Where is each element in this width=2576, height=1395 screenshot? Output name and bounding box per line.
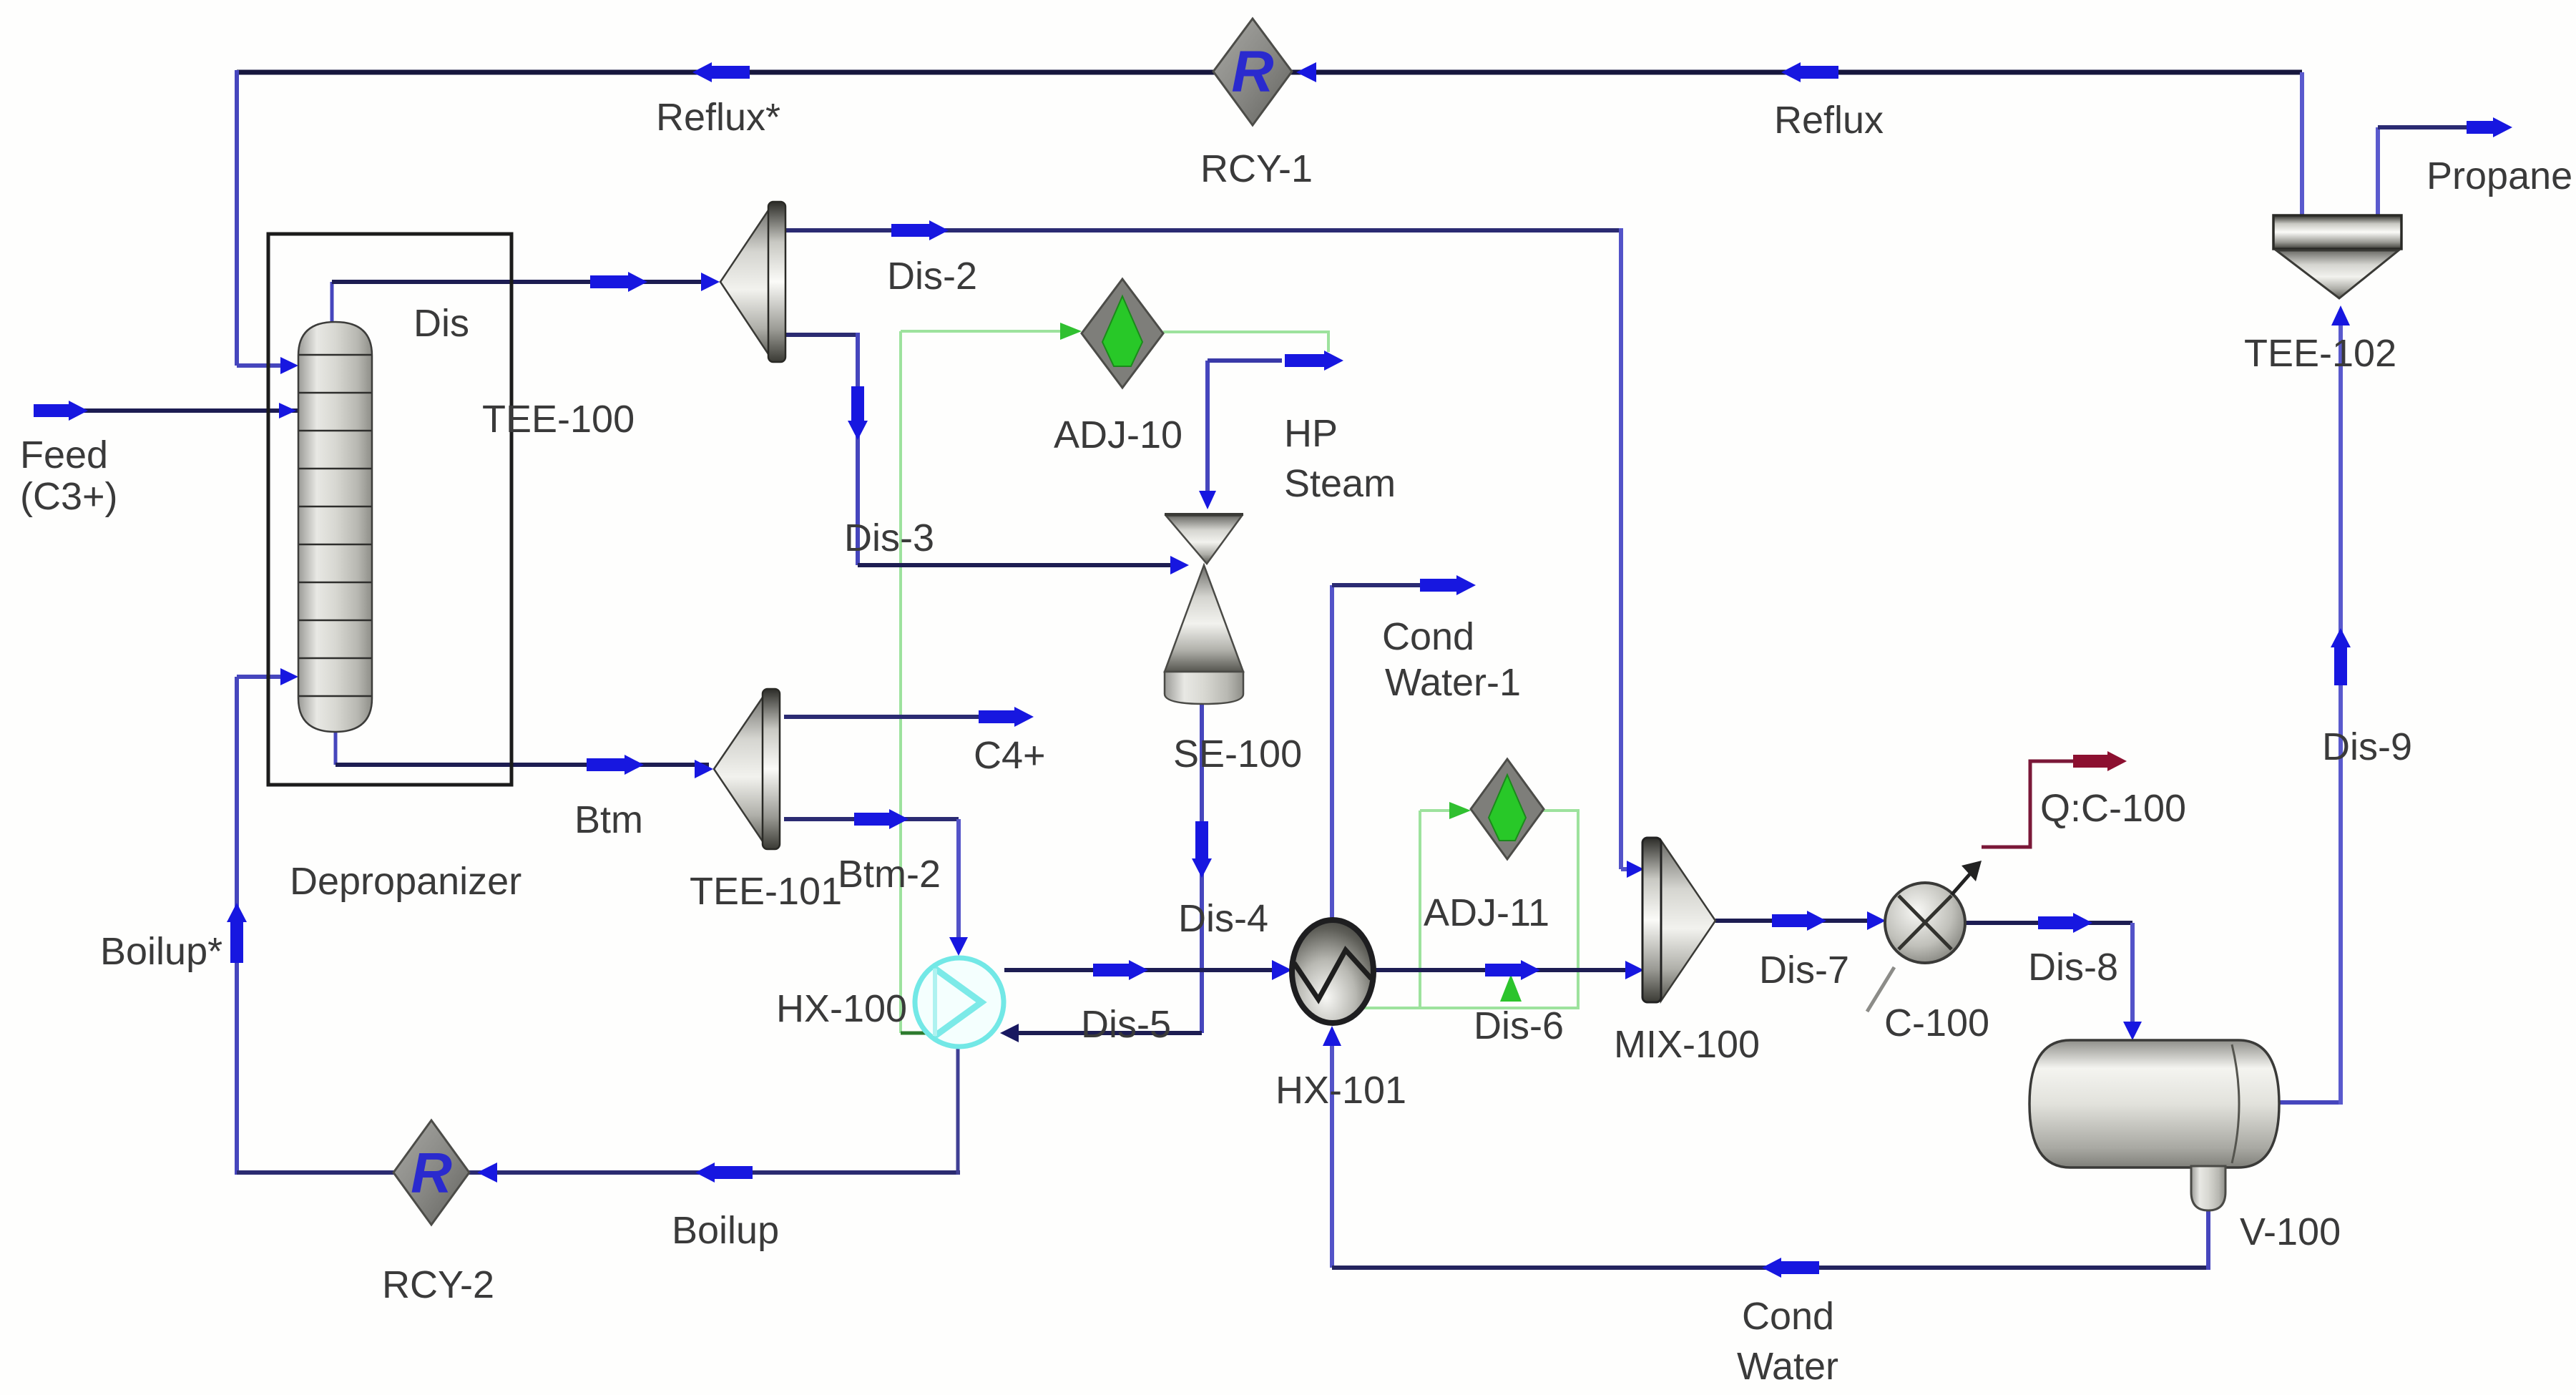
wire Cond Water (V-100 to HX-101 bottom)	[1323, 1026, 2208, 1270]
svg-text:Boilup: Boilup	[672, 1209, 779, 1252]
label C4+	[974, 734, 1046, 777]
label Dis-4	[1178, 897, 1268, 940]
svg-text:Dis-9: Dis-9	[2322, 725, 2412, 768]
svg-text:R: R	[411, 1141, 452, 1205]
stream icon Dis-4 arrow	[1192, 821, 1212, 878]
stream icon Reflux arrow	[1781, 62, 1838, 82]
heat exchanger HX-101 (dark sphere)	[1292, 920, 1373, 1023]
label Dis	[413, 302, 469, 345]
svg-text:Cond: Cond	[1742, 1295, 1834, 1338]
svg-text:Dis-2: Dis-2	[887, 255, 977, 298]
stream icon Dis-2 arrow	[891, 220, 949, 240]
label Depropanizer	[290, 860, 521, 903]
column envelope rectangle T-100	[268, 234, 511, 785]
column Depropanizer tray tower	[298, 322, 372, 732]
label TEE-101	[690, 870, 842, 913]
svg-text:ADJ-11: ADJ-11	[1424, 891, 1549, 934]
label Reflux*	[656, 96, 780, 139]
stream icon Boilup arrow	[695, 1162, 753, 1183]
svg-text:Btm: Btm	[574, 798, 643, 841]
wire ADJ-10 green outlet to HP Steam	[1163, 332, 1328, 352]
svg-text:C-100: C-100	[1884, 1002, 1989, 1044]
wire Dis-6 (HX-101 to MIX-100)	[1373, 961, 1644, 979]
wire Dis-9 (V-100 to TEE-102)	[2279, 305, 2350, 1105]
label Dis-2	[887, 255, 977, 298]
wire Dis-8 (C-100 to V-100)	[1966, 923, 2142, 1040]
svg-text:Feed: Feed	[20, 434, 108, 476]
svg-text:V-100: V-100	[2240, 1210, 2341, 1253]
label RCY-1	[1200, 147, 1313, 190]
label HP Steam	[1284, 412, 1396, 505]
mixer MIX-100	[1642, 838, 1715, 1002]
svg-text:Q:C-100: Q:C-100	[2040, 787, 2186, 830]
stream icon Dis-9 arrow	[2331, 628, 2351, 685]
svg-text:Dis-3: Dis-3	[844, 517, 934, 559]
label TEE-102	[2244, 332, 2396, 375]
cooler C-100	[1867, 883, 1965, 1012]
label Dis-3	[844, 517, 934, 559]
tee TEE-101	[714, 689, 780, 849]
label Dis-9	[2322, 725, 2412, 768]
label Propane	[2426, 155, 2572, 197]
stream icon Propane arrow	[2467, 117, 2512, 137]
svg-text:HP: HP	[1284, 412, 1338, 455]
label ADJ-10	[1054, 413, 1182, 456]
wire Btm-2 (TEE-101 to HX-100 top)	[784, 819, 968, 956]
wire Boilup* riser to column	[237, 668, 298, 1175]
stream icon HP Steam arrow	[1285, 351, 1343, 371]
wire TEE-102 left outlet riser	[2300, 72, 2304, 215]
label Boilup	[672, 1209, 779, 1252]
stream icon C4+ arrow	[979, 707, 1034, 727]
svg-text:Btm-2: Btm-2	[838, 853, 941, 896]
svg-text:Dis-5: Dis-5	[1081, 1003, 1171, 1046]
label C-100	[1884, 1002, 1989, 1044]
separator V-100	[2029, 1040, 2279, 1210]
label Dis-7	[1759, 949, 1849, 992]
arrowhead into RCY-2	[477, 1162, 497, 1183]
wire ADJ-10 green inlet with arrow	[901, 323, 1082, 340]
stream icon Feed arrow	[34, 401, 88, 421]
wire Btm (column bottom to TEE-101)	[336, 732, 713, 778]
stream icon Cond Water arrow	[1762, 1258, 1819, 1278]
svg-text:TEE-102: TEE-102	[2244, 332, 2396, 375]
svg-text:(C3+): (C3+)	[20, 475, 118, 518]
wire Dis-3 (TEE-100 to SE-100)	[785, 333, 1189, 574]
adjust ADJ-11	[1471, 759, 1544, 859]
stream icon Cond Water-1 arrow	[1420, 575, 1476, 595]
svg-text:Cond: Cond	[1382, 615, 1474, 658]
svg-text:HX-101: HX-101	[1275, 1069, 1406, 1112]
svg-text:R: R	[1231, 39, 1273, 104]
wire Dis-4 (SE-100 outlet down)	[1200, 704, 1204, 1033]
svg-text:Dis-8: Dis-8	[2028, 946, 2118, 989]
wire Reflux* downcomer to column	[237, 70, 298, 374]
stream icon Dis-6 arrow	[1485, 960, 1540, 980]
stream icon Reflux* arrow	[692, 62, 750, 82]
wire Feed (C3+)	[43, 403, 298, 418]
svg-text:ADJ-10: ADJ-10	[1054, 413, 1182, 456]
label MIX-100	[1614, 1023, 1760, 1066]
wire C4+ (TEE-101 top outlet)	[784, 715, 980, 719]
label Boilup*	[100, 930, 222, 973]
label Dis-6	[1474, 1004, 1564, 1047]
wire ADJ-11 green arrow to Dis-6	[1500, 974, 1522, 1002]
label Dis-8	[2028, 946, 2118, 989]
svg-text:Depropanizer: Depropanizer	[290, 860, 521, 903]
label SE-100	[1173, 733, 1302, 775]
stream icon Dis-8 arrow	[2038, 913, 2092, 933]
tee TEE-100	[720, 202, 785, 362]
svg-text:SE-100: SE-100	[1173, 733, 1302, 775]
svg-text:C4+: C4+	[974, 734, 1046, 777]
svg-text:RCY-2: RCY-2	[382, 1263, 494, 1306]
wire Propane outlet	[2378, 127, 2468, 215]
label Cond Water-1	[1382, 615, 1521, 704]
label Btm	[574, 798, 643, 841]
wire Reflux / Reflux* top header	[237, 70, 2302, 75]
svg-text:TEE-100: TEE-100	[482, 398, 635, 441]
wire ADJ-11 green loop	[1363, 802, 1578, 1008]
label Btm-2	[838, 853, 941, 896]
wire HX-100 to HX-101	[1004, 960, 1292, 980]
svg-text:Water-1: Water-1	[1385, 661, 1521, 704]
svg-text:Dis-7: Dis-7	[1759, 949, 1849, 992]
tee TEE-102 (funnel)	[2273, 215, 2401, 298]
stream icon Dis-7 arrow	[1772, 911, 1826, 931]
label Reflux	[1774, 99, 1884, 142]
label HX-101	[1275, 1069, 1406, 1112]
svg-text:Steam: Steam	[1284, 462, 1396, 505]
recycle RCY-1	[1213, 19, 1292, 125]
wire ADJ-10 green target link (vertical to Dis-5)	[901, 331, 953, 1033]
svg-text:MIX-100: MIX-100	[1614, 1023, 1760, 1066]
label V-100	[2240, 1210, 2341, 1253]
wire Dis (column top to TEE-100)	[332, 273, 720, 322]
adjust ADJ-10	[1082, 279, 1163, 388]
svg-text:TEE-101: TEE-101	[690, 870, 842, 913]
stream icon Dis arrow	[590, 272, 647, 292]
label ADJ-11	[1424, 891, 1549, 934]
stream icon Btm-2 arrow	[854, 809, 909, 829]
svg-text:Dis-6: Dis-6	[1474, 1004, 1564, 1047]
arrowhead into RCY-1	[1296, 62, 1316, 82]
wire HP Steam inlet to SE-100	[1199, 361, 1282, 509]
svg-text:RCY-1: RCY-1	[1200, 147, 1313, 190]
wire Dis-5 (to HX-100 right side)	[1000, 1024, 1202, 1042]
wire Dis-2 (TEE-100 to MIX-100)	[785, 228, 1644, 878]
label Cond Water	[1737, 1295, 1838, 1388]
stream icon Btm arrow	[587, 755, 644, 775]
label Q:C-100	[2040, 787, 2186, 830]
label Feed (C3+)	[20, 434, 118, 518]
label HX-100	[776, 987, 907, 1030]
heat exchanger HX-100 (cyan)	[915, 958, 1004, 1047]
stream icon Dis-5 arrow	[1093, 960, 1148, 980]
wire Cond Water-1 (HX-101 top outlet)	[1332, 585, 1422, 921]
wire Dis-7 (MIX-100 to C-100)	[1715, 911, 1886, 930]
label TEE-100	[482, 398, 635, 441]
svg-text:HX-100: HX-100	[776, 987, 907, 1030]
svg-text:Reflux*: Reflux*	[656, 96, 780, 139]
stream icon Dis-3 arrow	[848, 386, 868, 440]
svg-text:Dis: Dis	[413, 302, 469, 345]
svg-text:Boilup*: Boilup*	[100, 930, 222, 973]
svg-text:Water: Water	[1737, 1345, 1838, 1388]
label RCY-2	[382, 1263, 494, 1306]
wire Boilup (HX-100 to RCY-2)	[237, 1049, 960, 1175]
recycle RCY-2	[393, 1120, 469, 1225]
svg-text:Dis-4: Dis-4	[1178, 897, 1268, 940]
stream icon Boilup* arrow	[227, 903, 247, 963]
label Dis-5	[1081, 1003, 1171, 1046]
svg-text:Propane: Propane	[2426, 155, 2572, 197]
expander SE-100	[1165, 514, 1243, 704]
svg-text:Reflux: Reflux	[1774, 99, 1884, 142]
energy stream Q:C-100	[1951, 751, 2127, 895]
